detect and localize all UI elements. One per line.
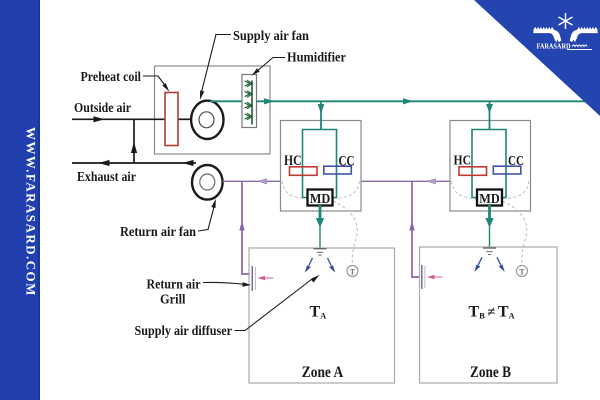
zone unit 2 branch <box>489 101 491 129</box>
zone A grill <box>251 266 253 291</box>
svg-text:T: T <box>519 266 525 276</box>
return duct arrow 1 <box>258 179 267 184</box>
zone unit 2 CC coil <box>493 166 521 174</box>
zone unit 1 CC coil <box>324 166 352 174</box>
left wing <box>533 27 561 42</box>
svg-text:MD: MD <box>479 191 500 206</box>
svg-text:Zone B: Zone B <box>470 364 511 381</box>
zone B diffuser arrows <box>474 257 504 272</box>
svg-text:Grill: Grill <box>160 293 186 308</box>
svg-text:Exhaust air: Exhaust air <box>77 170 136 185</box>
exhaust air arrow 1 <box>99 160 110 166</box>
zone B grill <box>421 265 423 289</box>
zone A diffuser <box>314 249 327 256</box>
svg-text:Preheat coil: Preheat coil <box>81 70 142 85</box>
zone A diffuser arrows <box>305 258 335 273</box>
supply duct arrow 2 <box>403 98 414 104</box>
zone B thermostat <box>517 266 528 277</box>
svg-text:WWW.FARASARD.COM: WWW.FARASARD.COM <box>24 127 39 297</box>
recirculation arrow <box>131 142 137 153</box>
humidifier <box>242 75 257 128</box>
svg-text:Zone A: Zone A <box>302 364 344 381</box>
svg-text:Return air: Return air <box>147 278 201 293</box>
zone B grill pink arrow <box>427 275 435 279</box>
outside air duct <box>72 118 193 120</box>
svg-text:HC: HC <box>454 153 472 168</box>
return riser arrow A <box>239 221 244 231</box>
snowflake <box>559 13 573 29</box>
supply air fan <box>191 101 223 139</box>
exhaust air arrow 2 <box>183 160 194 166</box>
svg-text:Supply air fan: Supply air fan <box>233 29 309 44</box>
svg-text:TB≠TA: TB≠TA <box>469 304 516 321</box>
zone unit 2 dashed control lines <box>452 181 530 265</box>
zone A grill pink arrow <box>258 276 266 280</box>
zone A thermostat <box>347 266 358 277</box>
zone unit 2 HC coil <box>459 167 487 176</box>
main supply duct <box>210 100 600 102</box>
corner banner triangle <box>474 0 600 116</box>
right wing <box>570 27 598 42</box>
svg-text:FARASARD: FARASARD <box>537 43 571 51</box>
zone unit 1 supply drop <box>319 205 322 219</box>
zone unit 1 branch <box>320 101 322 129</box>
zone unit 2 MD damper <box>477 190 502 206</box>
zone unit 1 duct loop <box>303 130 337 198</box>
svg-text:HC: HC <box>284 153 302 169</box>
svg-text:Supply air diffuser: Supply air diffuser <box>135 324 233 339</box>
zone unit 2 supply drop <box>488 205 491 219</box>
svg-text:Outside air: Outside air <box>74 101 131 116</box>
logo <box>533 13 597 51</box>
svg-text:Return air fan: Return air fan <box>120 225 196 240</box>
return air fan <box>192 165 223 200</box>
zone unit 1 box <box>281 121 362 212</box>
exhaust air duct <box>72 162 196 164</box>
return riser arrow B <box>409 221 414 231</box>
svg-text:MD: MD <box>310 191 331 206</box>
recirculation duct <box>133 119 135 163</box>
preheat coil <box>165 93 178 146</box>
zone unit 2 box <box>450 121 531 212</box>
zone B diffuser <box>483 248 496 255</box>
svg-text:CC: CC <box>508 153 524 168</box>
AHU box <box>155 66 271 154</box>
zone unit 1 dashed control lines <box>282 181 360 265</box>
supply duct arrow 1 <box>264 98 275 104</box>
svg-text:Humidifier: Humidifier <box>287 51 346 66</box>
zone A box <box>249 248 395 383</box>
zone unit 1 MD damper <box>308 190 333 206</box>
outside air arrow <box>94 116 105 122</box>
sidebar <box>0 0 40 400</box>
zone unit 1 HC coil <box>290 167 318 176</box>
svg-text:T: T <box>350 266 356 276</box>
return duct (purple) <box>223 181 450 277</box>
zone unit 2 duct loop <box>472 130 506 198</box>
zone B box <box>420 247 558 383</box>
return duct arrow 2 <box>427 179 436 184</box>
svg-text:CC: CC <box>339 154 355 170</box>
